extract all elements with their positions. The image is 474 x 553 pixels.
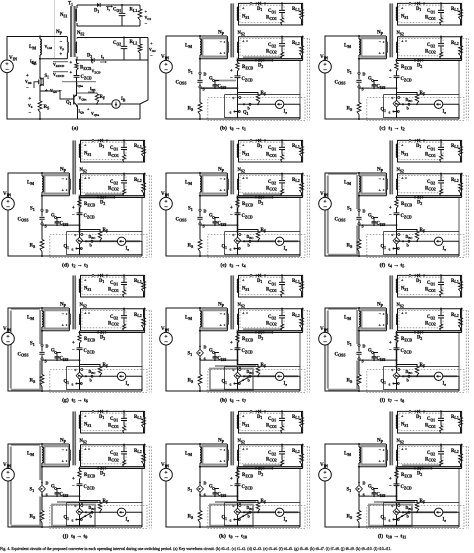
transistor Q1 body diode symbol (d) [79,235,81,238]
svg-text:G: G [368,214,372,219]
switch S1 source contact (d) [41,223,43,225]
svg-text:(a): (a) [72,125,79,132]
node collector c (f) [398,234,400,236]
highlight current path loop L_M/N_P (g) [44,310,69,328]
wire input bottom rail (e) [166,210,300,256]
diode D_1 (g) [92,275,94,277]
resistor R_L1 (k) [301,411,303,433]
svg-text:RL2: RL2 [292,313,300,318]
svg-text:RS: RS [347,515,353,520]
wire source to emitter rail (a) [39,88,41,101]
resistor R_ZCD (i) [396,333,398,335]
svg-text:−: − [150,53,153,58]
node collector c (e) [239,234,241,236]
svg-text:−: − [59,89,62,94]
svg-text:RCO2: RCO2 [266,321,277,326]
svg-text:RL1: RL1 [451,144,459,149]
wire input top rail (d) [8,173,69,198]
wire input top rail (k) [166,444,227,469]
svg-text:e: e [389,247,391,252]
svg-text:VIN: VIN [3,327,11,332]
dashed current loop output stage 2 (k) [240,447,284,464]
wire input bottom rail (k) [166,481,300,527]
svg-text:VIN: VIN [320,463,328,468]
svg-text:NS1: NS1 [84,287,91,292]
svg-text:D2: D2 [417,336,422,341]
wire S1 to R_S (h) [199,360,201,374]
dashed current loop output stage 1 (b) [240,5,284,22]
svg-text:RCO2: RCO2 [108,457,119,462]
svg-text:−: − [164,204,168,211]
svg-text:CO2: CO2 [268,315,276,320]
svg-text:e: e [72,247,74,252]
svg-text:RL1: RL1 [292,279,300,284]
dashed return path right margin (c) [463,39,469,121]
svg-text:D2: D2 [417,472,422,477]
svg-text:−: − [72,348,75,353]
svg-text:D: D [204,72,207,77]
svg-text:Ie: Ie [443,247,447,252]
voltage source V_IN (i) [319,332,332,345]
svg-text:D: D [46,209,49,214]
resistor R_L2 (a) [138,44,142,53]
svg-text:NS2: NS2 [238,31,245,36]
svg-text:−: − [379,312,382,317]
svg-text:−: − [6,204,10,211]
svg-text:−: − [379,177,382,182]
highlight current path loop L_M/N_P (l) [361,446,386,464]
svg-text:CO1: CO1 [113,8,121,13]
wire gate (k) [215,489,220,497]
output stage 2 box (g) [81,309,145,331]
wire loop bottom L_M to N_P (f) [359,195,386,197]
winding N_S1 (g) [79,279,80,293]
svg-text:D: D [363,72,366,77]
control region box (b) [225,95,300,118]
resistor R_S (g) [40,375,44,387]
svg-text:c: c [75,503,77,508]
svg-text:COSS: COSS [18,352,29,357]
capacitor C_ISS (j) [55,493,60,494]
highlight base current wire (l) [404,511,458,513]
dashed current loop bottom region (l) [367,506,464,529]
svg-text:−: − [323,67,327,74]
capacitor C_O1 (f) [440,140,442,154]
svg-text:G: G [51,485,55,490]
dashed current loop bottom region (k) [208,506,305,529]
svg-text:LM: LM [185,181,192,186]
svg-text:+: + [230,69,233,74]
dashed current loop output stage 2 (d) [82,176,126,193]
node junction top of L_M (f) [358,172,360,174]
wire loop bottom L_M to N_P (e) [200,195,227,197]
svg-text:−: − [230,484,233,489]
svg-text:D: D [363,481,366,486]
svg-text:−: − [389,348,392,353]
svg-text:+: + [150,41,153,46]
svg-text:RL1: RL1 [292,7,300,12]
wire base bias (i) [397,376,460,391]
svg-text:CO1: CO1 [427,281,435,286]
capacitor C_ZCD (k) [237,479,239,506]
resistor R_L2 (c) [460,37,462,59]
svg-text:D: D [363,209,366,214]
wire S1 to R_S (d) [41,225,43,239]
wire L_M branch (k) [199,444,201,481]
svg-text:RF: RF [100,95,106,100]
svg-text:NS1: NS1 [242,423,249,428]
svg-text:G: G [368,77,372,82]
highlight secondary return wire (e) [238,195,273,198]
output stage 1 box (e) [239,140,303,162]
node junction bottom rail (e) [199,255,201,257]
svg-text:CO2: CO2 [268,451,276,456]
svg-text:VIN: VIN [161,463,169,468]
node emitter e (h) [233,382,235,384]
node junction bottom rail (f) [358,255,360,257]
svg-text:RS: RS [347,379,353,384]
resistor R_S (l) [357,511,361,523]
diode D_2 (c) [418,59,421,63]
transformer core (d) [72,140,74,194]
highlight outer input loop (j) [11,445,41,526]
winding N_S1 (d) [79,144,80,158]
resistor R_CO2 (l) [440,460,443,467]
dashed current loop bottom region (c) [367,98,464,121]
wire S1 to R_S (i) [358,360,360,374]
resistor R_CO2 (j) [123,460,126,467]
resistor R_ZCD (a) [76,60,78,63]
wire secondary return to base rail (a) [140,60,148,104]
wire gate (i) [374,353,379,361]
svg-text:+: + [401,311,404,316]
transistor Q1 body diode symbol (f) [396,235,398,238]
output stage 1 wires (a) [77,5,140,26]
svg-text:RS: RS [347,244,353,249]
svg-text:G: G [368,485,372,490]
wire loop bottom L_M to N_P (l) [359,466,386,468]
svg-text:VIN: VIN [3,463,11,468]
capacitor C_O1 (a) [121,5,123,26]
wire loop bottom L_M to N_P (d) [42,195,69,197]
svg-text:CO2: CO2 [268,180,276,185]
highlight secondary return wire (k) [238,466,273,469]
svg-text:(d) t2 → t3: (d) t2 → t3 [62,262,88,269]
inductor L_M (a) [39,37,41,76]
svg-text:D2: D2 [258,201,263,206]
output stage 2 box (e) [239,174,303,196]
transformer core (b) [230,3,232,57]
wire gate (g) [57,353,62,361]
dashed current loop output stage 2 (h) [240,311,284,328]
svg-text:RZCD: RZCD [401,473,413,478]
node collector c (d) [81,234,83,236]
wire secondary return (j) [80,467,145,469]
resistor R_L2 (f) [460,174,462,196]
svg-text:+: + [242,39,245,44]
node junction bottom rail (k) [199,526,201,528]
capacitor C_OSS (b) [199,74,201,86]
control region box (e) [225,232,300,255]
capacitor C_ZCD (j) [79,479,81,506]
wire secondary return (f) [397,196,462,198]
diode D_2 (a) [91,58,94,62]
wire base bias (j) [80,512,143,527]
highlight ZCD branch (d) [79,198,81,233]
svg-text:+: + [60,53,63,58]
diode D_2 (j) [101,467,104,471]
wire to R_F (k) [238,501,259,503]
winding N_S1 (h) [237,279,238,293]
svg-text:RL2: RL2 [451,449,459,454]
wire loop bottom L_M to N_P (i) [359,330,386,332]
svg-text:CZCD: CZCD [401,214,413,219]
svg-text:I2: I2 [101,55,104,60]
svg-text:RL1: RL1 [134,279,142,284]
svg-text:Ie: Ie [126,247,130,252]
wire secondary return (d) [80,196,145,198]
resistor R_ZCD (k) [237,469,239,471]
capacitor C_OSS (c) [358,74,360,86]
svg-text:−: − [323,339,327,346]
svg-text:RCO1: RCO1 [108,424,119,429]
dashed current loop output stage 1 (f) [399,142,443,159]
capacitor C_O1 (c) [440,3,442,17]
svg-text:RS: RS [30,515,36,520]
resistor R_L2 (e) [301,174,303,196]
wire loop bottom L_M to N_P (k) [200,466,227,468]
node emitter e (b) [233,110,235,112]
svg-text:RZCD: RZCD [84,337,96,342]
wire source rail (d) [42,224,80,226]
node emitter e (i) [392,382,394,384]
node base b (k) [243,511,245,513]
highlight ZCD branch (i) [396,333,398,368]
diode D_2 (b) [259,59,262,63]
resistor R_L2 (b) [301,37,303,59]
svg-text:LM: LM [344,181,351,186]
svg-text:D1: D1 [416,7,421,12]
svg-text:CZCD: CZCD [242,485,254,490]
capacitor C_ZCD (e) [237,208,239,235]
winding N_S1 (i) [396,279,397,293]
node emitter e (c) [392,110,394,112]
dashed current loop bottom region (g) [50,370,147,393]
wire S1 to R_S (f) [358,225,360,239]
svg-text:LM: LM [27,181,34,186]
highlight output stage 2 loop (h) [243,328,282,330]
svg-text:−: − [230,213,233,218]
svg-text:+: + [230,341,233,346]
voltage source V_IN (j) [2,468,15,481]
svg-text:+: + [70,61,73,66]
resistor R_CO2 (g) [123,324,126,331]
svg-text:RCO2: RCO2 [266,186,277,191]
svg-text:VIN: VIN [3,192,11,197]
highlight R_F feed wire (j) [57,501,98,503]
highlight Q1 loop box (h) [210,369,253,390]
capacitor C_ZCD (g) [79,343,81,370]
svg-text:−: − [62,448,65,453]
svg-text:−: − [6,339,10,346]
wire loop bottom L_M to N_P (g) [42,330,69,332]
output stage 1 box (i) [398,275,462,297]
dashed return path right margin (f) [463,176,469,258]
svg-text:c: c [75,232,77,237]
inductor L_M (c) [359,39,360,55]
dashed current loop bottom region (j) [50,506,147,529]
transformer core (e) [230,140,232,194]
svg-text:+: + [220,51,223,56]
resistor R_ZCD (h) [237,333,239,335]
svg-text:CO1: CO1 [268,9,276,14]
switch S1 body diode (h) [199,345,201,360]
dashed current loop output stage 2 (c) [399,39,443,56]
capacitor C_O2 (c) [440,37,442,53]
highlight current path loop L_M/N_P (f) [361,175,386,193]
svg-text:RCO1: RCO1 [108,153,119,158]
output stage 2 box (j) [81,445,145,467]
svg-text:+: + [26,74,29,79]
dashed return path right margin (b) [304,39,310,121]
node base b (b) [243,103,245,105]
transformer core (g) [72,275,74,329]
svg-text:COSS: COSS [176,80,187,85]
highlight R_F feed wire (l) [374,501,415,503]
svg-text:NS1: NS1 [401,287,408,292]
svg-text:+: + [389,206,392,211]
current source I_e (h) [275,372,283,380]
resistor R_L2 (i) [460,309,462,331]
winding N_S1 (l) [396,415,397,429]
current arrow base-emitter (l) [397,512,410,519]
wire to R_F (l) [397,501,418,503]
dashed current loop bottom region (h) [208,370,305,393]
wire L_M branch (h) [199,308,201,345]
svg-text:LM: LM [185,316,192,321]
wire source rail (j) [42,495,80,497]
wire to R_F (h) [238,365,259,367]
node collector c (h) [239,369,241,371]
output stage 1 box (f) [398,140,462,162]
svg-text:S1: S1 [347,207,352,212]
resistor R_CO1 (b) [281,18,284,26]
svg-text:IB: IB [121,97,126,102]
svg-text:RS: RS [188,244,194,249]
resistor R_L1 (b) [301,3,303,25]
highlight current path loop L_M/N_P (i) [361,310,386,328]
svg-text:RCO1: RCO1 [266,153,277,158]
svg-text:D2: D2 [258,472,263,477]
svg-text:e: e [230,247,232,252]
svg-text:NP: NP [377,168,384,173]
winding N_S1 (j) [79,415,80,429]
svg-text:+: + [401,39,404,44]
svg-text:CO1: CO1 [427,146,435,151]
svg-text:RCO1: RCO1 [425,288,436,293]
dashed return path right margin (l) [463,447,469,529]
current arrow collector (k) [239,502,241,504]
wire L_M branch (l) [358,444,360,481]
current source I_e (k) [275,508,283,516]
svg-text:+: + [379,188,382,193]
wire to R_F (j) [80,501,101,503]
wire source rail (i) [359,359,397,361]
svg-text:−: − [389,213,392,218]
wire input top rail (f) [325,173,386,198]
svg-text:+: + [84,311,87,316]
svg-text:CO1: CO1 [110,146,118,151]
dashed return path right margin (e) [304,176,310,258]
svg-text:NS2: NS2 [80,303,87,308]
svg-text:RCO1: RCO1 [266,424,277,429]
svg-text:+: + [72,477,75,482]
svg-text:LM: LM [29,45,36,50]
diode D_2 (i) [418,331,421,335]
svg-text:RL1: RL1 [451,415,459,420]
resistor R_CO2 (i) [440,324,443,331]
node ZCD top (l) [395,467,397,469]
svg-text:+: + [62,323,65,328]
control region box (l) [384,503,459,526]
resistor R_S (a) [38,101,42,112]
svg-text:NP: NP [218,168,225,173]
svg-text:CISS: CISS [377,493,386,498]
wire to R_F (e) [238,230,259,232]
transformer core (f) [389,140,391,194]
output stage 1 box (d) [81,140,145,162]
svg-text:RF: RF [103,499,109,504]
highlight ZCD branch (k) [237,469,239,504]
wire input bottom rail (d) [8,210,142,256]
node junction bottom rail (j) [41,526,43,528]
svg-text:Ie: Ie [284,518,288,523]
svg-text:c: c [392,367,394,372]
resistor R_ZCD (b) [237,61,239,63]
svg-text:CO1: CO1 [268,146,276,151]
svg-text:RCO2: RCO2 [108,321,119,326]
capacitor C_ISS (l) [372,493,377,494]
capacitor C_O2 (a) [123,38,125,61]
svg-text:NS2: NS2 [397,439,404,444]
wire input bottom rail (h) [166,345,300,391]
resistor R_L1 (e) [301,140,303,162]
capacitor C_OSS (i) [358,346,360,358]
dashed current loop bottom region (i) [367,370,464,393]
node ZCD top (i) [395,331,397,333]
svg-text:NS2: NS2 [80,168,87,173]
svg-text:RS: RS [30,244,36,249]
svg-text:−: − [72,213,75,218]
resistor R_S (f) [357,240,361,252]
svg-text:−: − [5,67,9,74]
output stage 2 box (k) [239,445,303,467]
svg-text:+: + [70,71,73,76]
svg-text:D1: D1 [416,279,421,284]
capacitor C_O2 (j) [123,445,125,461]
svg-text:+: + [389,341,392,346]
transistor Q1 (a) [73,95,75,105]
capacitor C_OSS (e) [199,211,201,223]
highlight output stage 2 loop (b) [243,56,282,58]
wire input top rail (l) [325,444,386,469]
svg-text:NP: NP [377,303,384,308]
svg-text:LM: LM [344,316,351,321]
winding N_S2 (l) [396,450,399,461]
resistor R_L1 (f) [460,140,462,162]
highlight outer input loop (g) [11,309,41,390]
winding N_S2 (h) [237,314,240,325]
